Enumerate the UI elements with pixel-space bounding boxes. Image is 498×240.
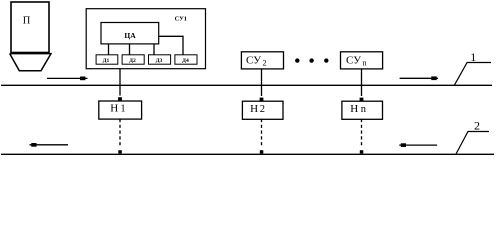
block СУ2: [241, 52, 283, 69]
svg-text:Д1: Д1: [103, 58, 110, 64]
svg-text:СУ: СУ: [246, 54, 261, 66]
hopper П box: [11, 2, 49, 53]
block Н2: [242, 101, 283, 119]
flag label 1: [454, 50, 491, 85]
dashed wire Н2 to conveyor 2 with arrow: [260, 119, 264, 154]
block СУ1: [86, 9, 205, 69]
wire ЦА to Д2: [129, 44, 131, 55]
block Д4: [175, 55, 197, 64]
svg-text:Н: Н: [250, 103, 258, 115]
svg-text:2: 2: [263, 58, 267, 67]
ellipsis dots: [295, 58, 328, 62]
svg-text:2: 2: [474, 118, 480, 132]
wire ЦА to Д4: [159, 36, 183, 55]
conveyor line 2: [1, 153, 494, 155]
svg-text:П: П: [23, 16, 31, 27]
wire СУn to Нn with arrow: [360, 69, 364, 101]
svg-text:Д4: Д4: [182, 58, 189, 64]
wire ЦА to Д3: [153, 44, 155, 55]
conveyor line 1: [1, 84, 492, 86]
arrow conveyor 2 direction left (right side): [399, 143, 437, 147]
svg-text:Н: Н: [350, 103, 358, 115]
svg-text:1: 1: [120, 104, 125, 115]
svg-text:2: 2: [260, 104, 265, 115]
block Нn: [342, 101, 383, 119]
svg-text:n: n: [363, 58, 367, 67]
svg-text:Д2: Д2: [129, 58, 136, 64]
block СУn: [341, 52, 383, 69]
dashed wire Н1 to conveyor 2 with arrow: [118, 119, 122, 154]
flag label 2: [456, 118, 489, 154]
arrow conveyor 1 direction right: [400, 76, 438, 80]
hopper funnel: [10, 54, 51, 71]
block Н1: [99, 101, 142, 119]
svg-text:1: 1: [470, 50, 476, 64]
block Д2: [122, 55, 144, 64]
svg-text:СУ: СУ: [346, 54, 361, 66]
svg-text:ЦА: ЦА: [124, 31, 136, 40]
block Д1: [96, 55, 118, 64]
svg-text:Д3: Д3: [156, 58, 163, 64]
svg-text:Н: Н: [110, 103, 118, 115]
svg-text:СУ1: СУ1: [175, 16, 187, 23]
block ЦА: [101, 23, 159, 44]
wire СУ2 to Н2 with arrow: [260, 69, 264, 101]
svg-text:n: n: [361, 104, 367, 115]
arrow conveyor 2 direction left (left side): [30, 143, 69, 147]
wire ЦА to Д1: [108, 44, 110, 55]
block Д3: [149, 55, 171, 64]
wire СУ1 to Н1 with arrow: [118, 69, 122, 101]
dashed wire Нn to conveyor 2 with arrow: [360, 119, 364, 154]
arrow feed onto conveyor 1: [47, 77, 88, 81]
